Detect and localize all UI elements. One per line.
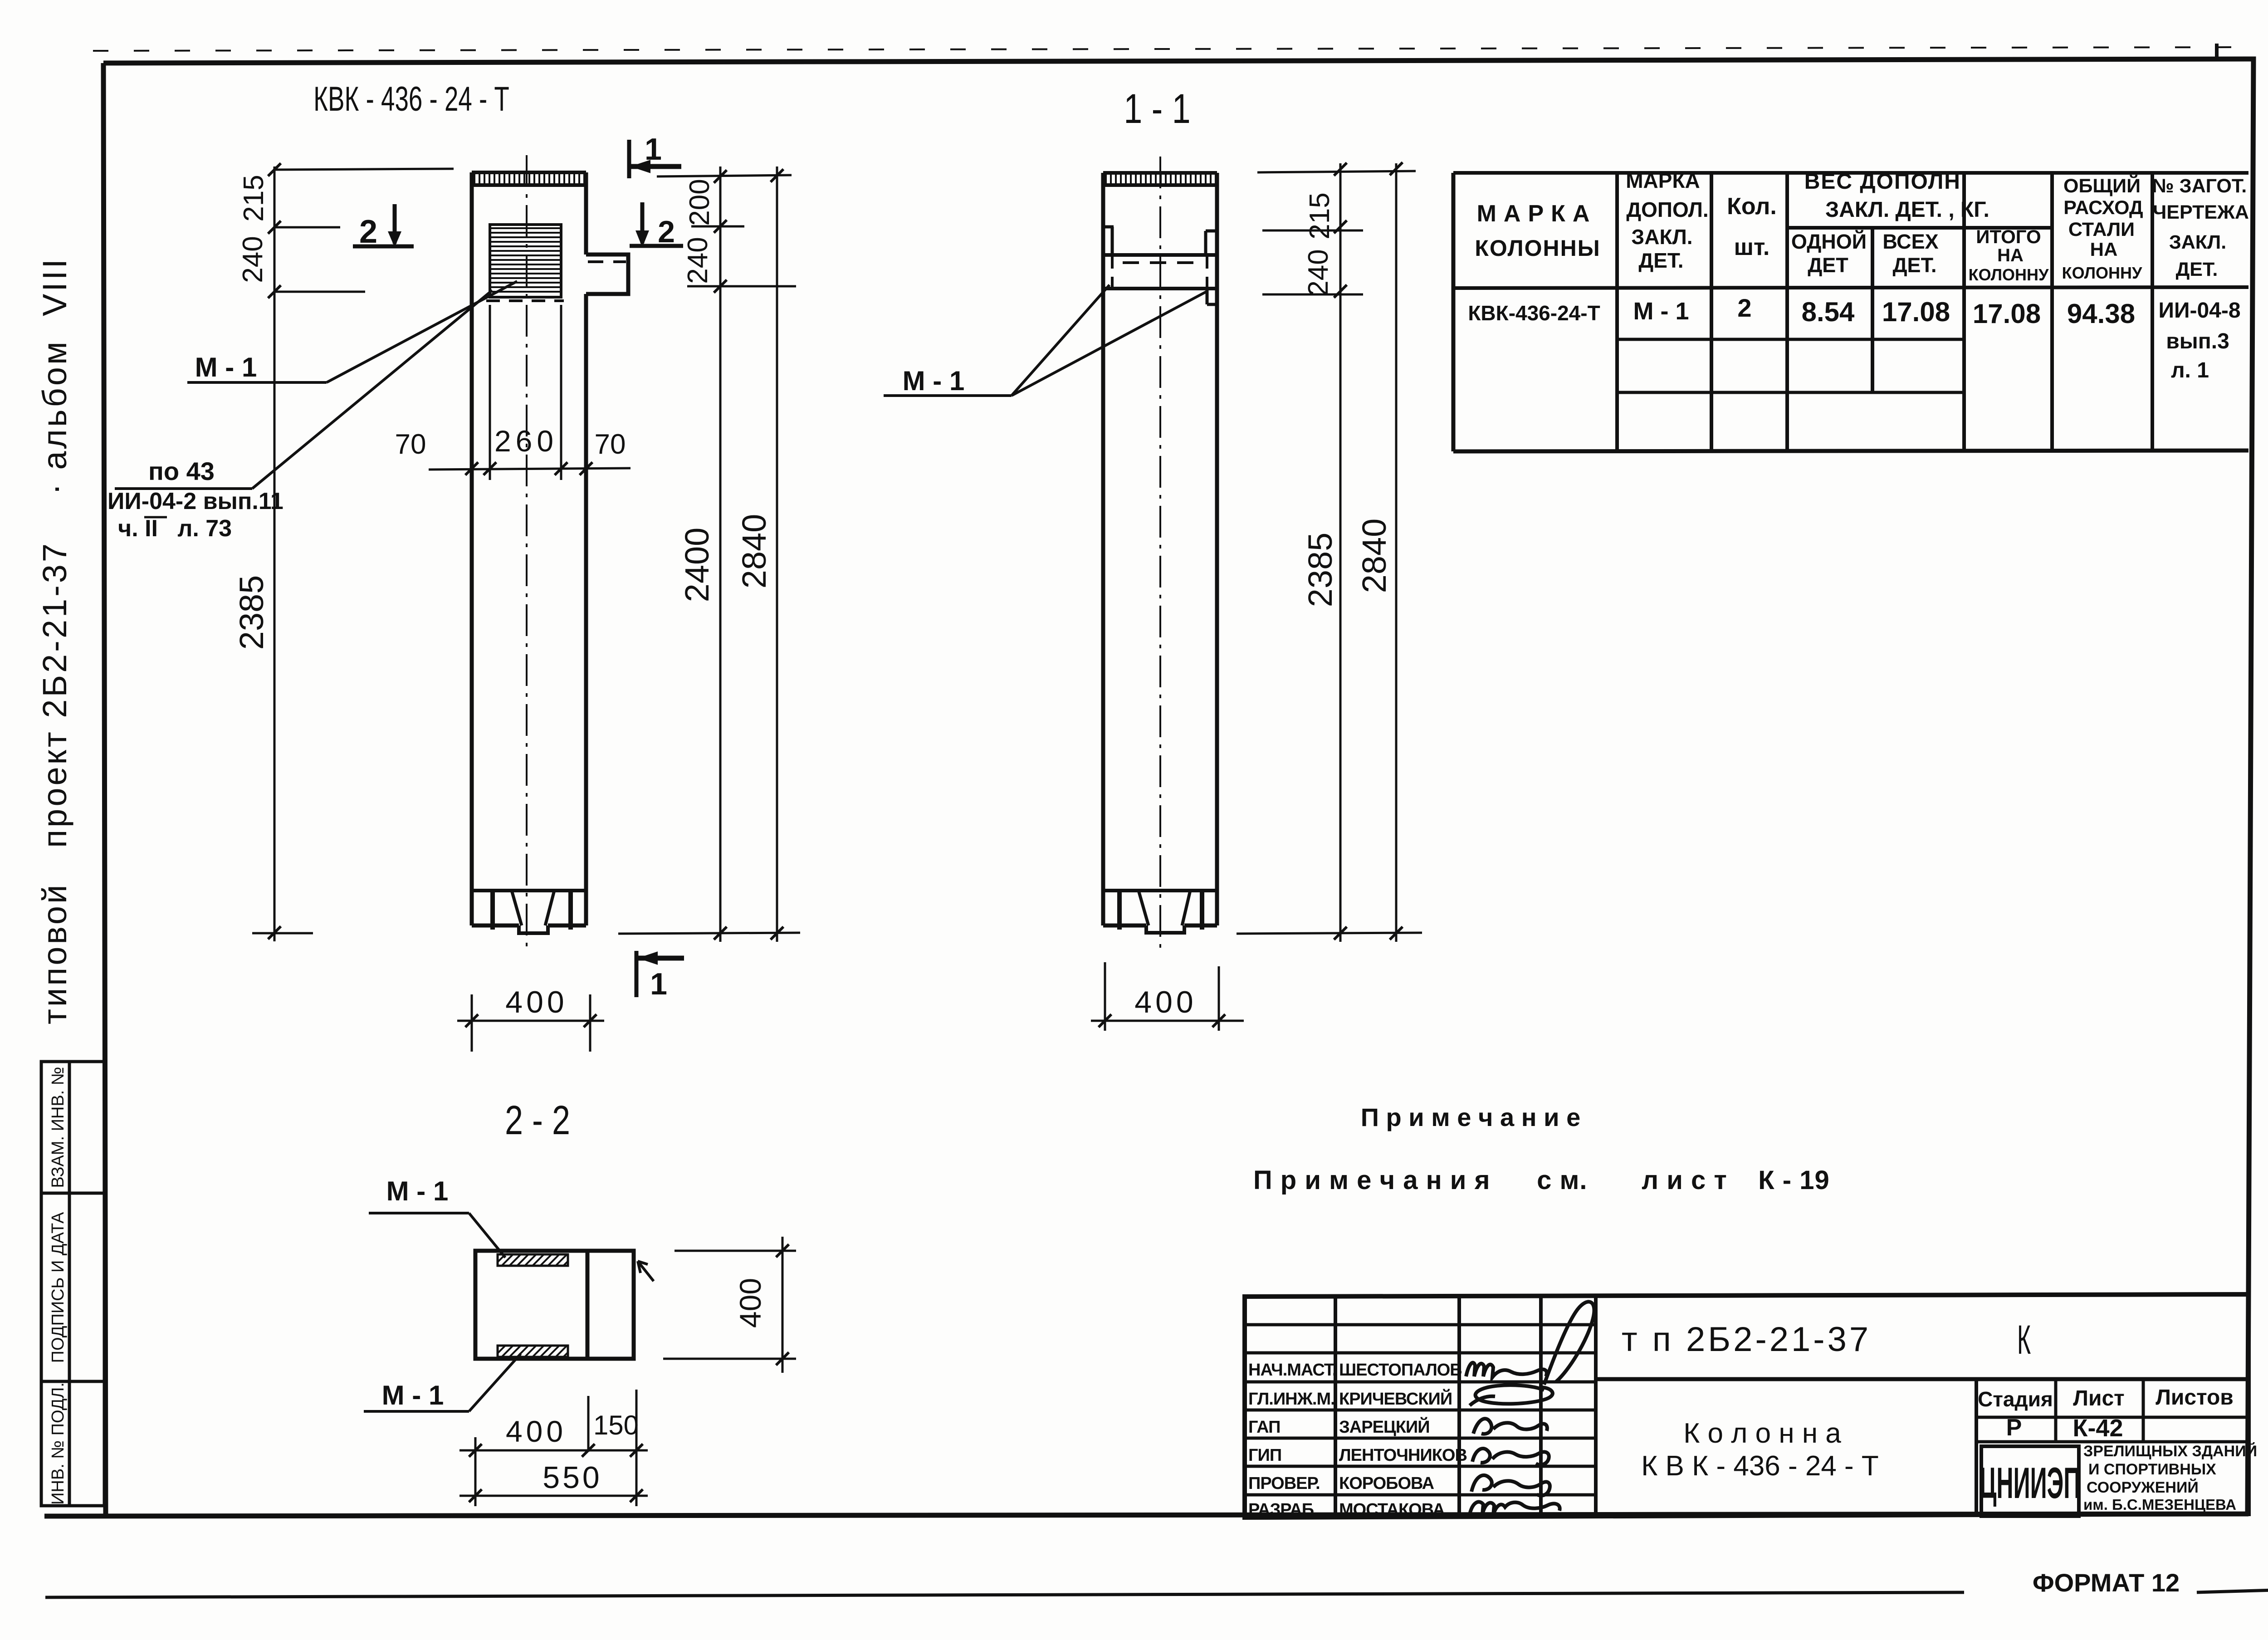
svg-text:ИИ-04-8: ИИ-04-8 [2158, 299, 2240, 323]
svg-text:ВСЕХ: ВСЕХ [1882, 230, 1938, 253]
dim chain right of section 1-1 [1237, 162, 1422, 942]
label M-1 lower (2-2) [364, 1354, 521, 1411]
table data row [1468, 294, 2240, 382]
label M-1 section 1-1 [884, 285, 1208, 396]
svg-text:2: 2 [1737, 294, 1751, 322]
title block mark K [2017, 1317, 2031, 1362]
svg-text:М - 1: М - 1 [1633, 298, 1689, 325]
stamp label podpis i data [49, 1212, 68, 1363]
section mark 1 top [629, 132, 681, 178]
svg-text:ИНВ. № ПОДЛ.: ИНВ. № ПОДЛ. [49, 1382, 68, 1505]
svg-text:ЗАРЕЦКИЙ: ЗАРЕЦКИЙ [1339, 1416, 1430, 1437]
dim 70 260 70 [395, 305, 631, 480]
svg-text:2: 2 [359, 214, 377, 250]
section mark 1 bottom [636, 951, 684, 1001]
svg-text:Р: Р [2006, 1415, 2022, 1441]
svg-text:1 - 1: 1 - 1 [1124, 85, 1190, 132]
svg-text:215: 215 [1304, 192, 1335, 239]
svg-text:ВЗАМ. ИНВ. №: ВЗАМ. ИНВ. № [49, 1067, 68, 1188]
svg-text:ЗАКЛ. ДЕТ. , КГ.: ЗАКЛ. ДЕТ. , КГ. [1825, 198, 1989, 222]
scan edge dashed line [93, 44, 2241, 59]
svg-text:НА: НА [2090, 239, 2118, 260]
svg-text:215: 215 [238, 175, 269, 221]
section mark 2 left [353, 204, 414, 250]
note primechanie heading [1361, 1103, 1581, 1131]
svg-text:ДЕТ.: ДЕТ. [1893, 254, 1937, 277]
svg-text:70: 70 [395, 429, 426, 460]
svg-text:17.08: 17.08 [1882, 297, 1950, 327]
svg-text:МАРКА: МАРКА [1477, 201, 1597, 227]
svg-text:2400: 2400 [678, 528, 716, 602]
svg-text:РАСХОД: РАСХОД [2063, 197, 2143, 219]
svg-text:М - 1: М - 1 [903, 366, 965, 396]
stamp label vzam inv [49, 1067, 68, 1188]
title KVK-436-24-T [313, 80, 509, 118]
svg-text:И СПОРТИВНЫХ: И СПОРТИВНЫХ [2088, 1461, 2216, 1478]
svg-text:8.54: 8.54 [1802, 297, 1855, 327]
svg-text:М - 1: М - 1 [386, 1176, 449, 1206]
stamp boxes left margin [41, 1062, 104, 1506]
svg-text:типовой проект 2Б2-21-37: типовой проект 2Б2-21-37 · альбом VIII [36, 257, 73, 1024]
svg-text:17.08: 17.08 [1973, 299, 2041, 329]
svg-text:ЗРЕЛИЩНЫХ ЗДАНИЙ: ЗРЕЛИЩНЫХ ЗДАНИЙ [2083, 1442, 2257, 1460]
note po 43 II-04-2 [108, 290, 492, 542]
column foot detail [472, 891, 586, 933]
label M-1 upper (2-2) [369, 1176, 505, 1258]
svg-text:2 - 2: 2 - 2 [505, 1097, 570, 1143]
section 2-2 top plate M-1 hatched [498, 1254, 568, 1266]
svg-text:КВК-436-24-Т: КВК-436-24-Т [1468, 301, 1600, 325]
svg-text:ЛЕНТОЧНИКОВ: ЛЕНТОЧНИКОВ [1339, 1446, 1467, 1465]
svg-text:П р и м е ч а н и е: П р и м е ч а н и е [1361, 1103, 1581, 1131]
svg-text:К: К [2017, 1317, 2031, 1362]
dim 400 right of 2-2 [663, 1237, 796, 1373]
svg-text:МОСТАКОВА: МОСТАКОВА [1339, 1500, 1445, 1519]
svg-text:МАРКА: МАРКА [1626, 169, 1700, 192]
section mark 2 right [630, 202, 683, 249]
svg-text:ДЕТ: ДЕТ [1808, 254, 1848, 277]
svg-text:ч. II л. 73: ч. II л. 73 [118, 515, 232, 542]
svg-text:ГИП: ГИП [1248, 1446, 1281, 1465]
section 1-1 inner cap details [1103, 227, 1217, 304]
logo institute text [2083, 1442, 2257, 1513]
note primechaniya text [1253, 1165, 1830, 1195]
svg-text:400: 400 [505, 985, 567, 1019]
format label [2033, 1568, 2180, 1597]
console bracket right side [586, 255, 628, 294]
svg-text:ДОПОЛ.: ДОПОЛ. [1626, 198, 1708, 221]
svg-text:ГАП: ГАП [1248, 1418, 1280, 1437]
svg-text:КОЛОННЫ: КОЛОННЫ [1475, 235, 1600, 261]
svg-text:шт.: шт. [1734, 234, 1770, 260]
section 2-2 bottom plate M-1 hatched [498, 1346, 568, 1357]
svg-text:ЗАКЛ.: ЗАКЛ. [2169, 231, 2226, 253]
svg-text:П р и м е ч а н и я с м.: П р и м е ч а н и я с м. л и с т К - 19 [1253, 1165, 1830, 1195]
svg-text:ОДНОЙ: ОДНОЙ [1791, 230, 1867, 253]
svg-text:ЦНИИЭП: ЦНИИЭП [1980, 1459, 2081, 1508]
svg-text:вып.3: вып.3 [2166, 329, 2229, 353]
svg-text:94.38: 94.38 [2067, 299, 2135, 329]
dim 400 below section 1-1 [1091, 962, 1244, 1031]
title block project number [1622, 1320, 1871, 1359]
stamp label inv n podl [49, 1382, 68, 1505]
label M-1 left drawing [187, 281, 517, 382]
svg-text:ДЕТ.: ДЕТ. [1638, 249, 1683, 272]
svg-text:70: 70 [595, 429, 626, 460]
dims 400 150 550 below 2-2 [459, 1390, 648, 1506]
svg-text:М - 1: М - 1 [195, 352, 257, 382]
svg-text:СТАЛИ: СТАЛИ [2068, 219, 2135, 240]
svg-text:2840: 2840 [1355, 519, 1393, 593]
section 2-2 corner arrow [638, 1261, 654, 1281]
svg-text:К-42: К-42 [2072, 1415, 2123, 1442]
svg-text:ИИ-04-2 вып.11: ИИ-04-2 вып.11 [108, 488, 283, 514]
title section 2-2 [505, 1097, 570, 1143]
svg-text:150: 150 [593, 1410, 639, 1440]
svg-text:Листов: Листов [2156, 1385, 2234, 1410]
svg-text:ФОРМАТ 12: ФОРМАТ 12 [2033, 1568, 2180, 1597]
svg-text:КРИЧЕВСКИЙ: КРИЧЕВСКИЙ [1339, 1388, 1452, 1409]
svg-text:КОЛОННУ: КОЛОННУ [1969, 265, 2049, 284]
svg-text:Лист: Лист [2073, 1386, 2124, 1410]
svg-text:2385: 2385 [1301, 533, 1339, 607]
svg-text:ПОДПИСЬ И ДАТА: ПОДПИСЬ И ДАТА [49, 1212, 68, 1363]
svg-text:т п 2Б2-21-37: т п 2Б2-21-37 [1622, 1320, 1871, 1359]
svg-text:ШЕСТОПАЛОВ: ШЕСТОПАЛОВ [1339, 1361, 1462, 1380]
svg-text:400: 400 [1134, 985, 1197, 1019]
svg-text:М - 1: М - 1 [382, 1380, 444, 1410]
svg-text:400: 400 [733, 1278, 767, 1328]
svg-text:КОРОБОВА: КОРОБОВА [1339, 1474, 1434, 1493]
title block object name [1641, 1418, 1879, 1482]
svg-text:л. 1: л. 1 [2171, 358, 2209, 382]
logo TSNIIEP [1980, 1446, 2081, 1516]
dim chain right of column 200 240 2400 2840 [618, 166, 800, 942]
svg-text:Кол.: Кол. [1727, 193, 1777, 220]
svg-text:ГЛ.ИНЖ.М.: ГЛ.ИНЖ.М. [1248, 1390, 1335, 1409]
svg-text:550: 550 [543, 1460, 602, 1495]
svg-text:ЗАКЛ.: ЗАКЛ. [1631, 225, 1692, 249]
svg-text:200: 200 [684, 179, 715, 225]
svg-text:№ ЗАГОТ.: № ЗАГОТ. [2152, 175, 2247, 197]
svg-text:КОЛОННУ: КОЛОННУ [2062, 264, 2142, 282]
svg-text:КВК - 436 - 24 - Т: КВК - 436 - 24 - Т [313, 80, 509, 118]
svg-text:ИТОГО: ИТОГО [1976, 226, 2041, 247]
svg-text:2: 2 [658, 215, 675, 249]
svg-text:2385: 2385 [233, 575, 270, 650]
svg-text:К о л о н н а: К о л о н н а [1683, 1418, 1841, 1449]
svg-text:240: 240 [237, 236, 269, 283]
title block grid [1245, 1294, 2248, 1518]
title section 1-1 [1124, 85, 1190, 132]
section 1-1 column outline [1103, 173, 1217, 925]
svg-text:НА: НА [1997, 245, 2024, 265]
dim 400 below left column [457, 985, 604, 1052]
svg-text:240: 240 [682, 237, 714, 284]
svg-text:1: 1 [645, 132, 662, 166]
svg-text:СООРУЖЕНИЙ: СООРУЖЕНИЙ [2087, 1478, 2199, 1496]
svg-text:2840: 2840 [735, 514, 773, 589]
section 1-1 centerline [1159, 157, 1161, 954]
dim chain left of column [233, 163, 454, 941]
svg-text:ЧЕРТЕЖА: ЧЕРТЕЖА [2153, 201, 2249, 223]
svg-text:НАЧ.МАСТ.: НАЧ.МАСТ. [1248, 1361, 1336, 1380]
svg-text:им. Б.С.МЕЗЕНЦЕВА: им. Б.С.МЕЗЕНЦЕВА [2083, 1496, 2236, 1513]
svg-text:1: 1 [650, 967, 667, 1001]
steel summary table [1453, 173, 2248, 451]
table headers [1475, 169, 2249, 284]
embedded plate M-1 hatched [486, 225, 564, 301]
section 1-1 foot detail [1103, 891, 1217, 933]
signatures [1466, 1302, 1594, 1515]
svg-text:К В К - 436 - 24 - Т: К В К - 436 - 24 - Т [1641, 1450, 1879, 1482]
column centerline [526, 155, 528, 954]
left margin project title (rotated) [36, 257, 73, 1024]
svg-text:ДЕТ.: ДЕТ. [2176, 259, 2218, 280]
svg-text:по 43: по 43 [148, 457, 215, 485]
svg-text:ОБЩИЙ: ОБЩИЙ [2063, 175, 2141, 197]
title block role labels [1248, 1361, 1467, 1519]
sheet bottom edge line [45, 1590, 2268, 1597]
svg-text:Стадия: Стадия [1978, 1387, 2053, 1411]
svg-text:260: 260 [494, 424, 558, 458]
stadia list listov [1978, 1385, 2234, 1442]
svg-text:400: 400 [506, 1415, 567, 1448]
svg-text:РАЗРАБ.: РАЗРАБ. [1248, 1500, 1318, 1519]
column elevation outline [472, 172, 586, 925]
svg-text:ПРОВЕР.: ПРОВЕР. [1248, 1474, 1320, 1493]
section 2-2 outline [475, 1251, 634, 1359]
svg-text:ВЕС ДОПОЛН.: ВЕС ДОПОЛН. [1804, 170, 1968, 194]
svg-text:240: 240 [1303, 249, 1334, 296]
